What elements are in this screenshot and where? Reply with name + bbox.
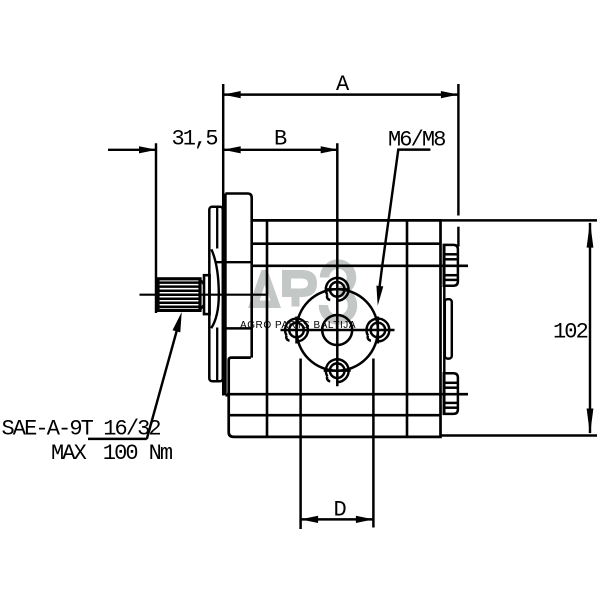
body horizontal line upper2 with plug centerline [252,264,468,267]
dimension 31,5 line with outside arrow [108,146,157,153]
front cover plate [225,194,251,396]
gear housing right wall [406,220,409,437]
cover seal bore bottom [225,327,251,329]
leader M6/M8 [376,150,430,306]
leader SAE [147,312,182,439]
rear strip [445,299,452,358]
shaft collar [204,275,210,314]
body top edge extension for 102 [441,219,598,221]
central vertical line / B extension [336,143,339,386]
dimension extension line A/B/31,5 shared [222,84,224,396]
bolt hole top [326,278,349,301]
flange plate [209,207,223,381]
bolt circle BCD [297,289,378,370]
dimension extension line 31,5 left [155,143,157,313]
D extension line left [299,359,302,530]
svg-text:MAX: MAX [51,441,87,466]
dimension 102 line [587,222,594,435]
svg-text:102: 102 [553,320,588,345]
hub leaf profile [211,249,219,328]
gear housing left wall [266,220,269,437]
bolt crosshair horizontal long [281,329,395,332]
bolt hole right [367,317,390,344]
body bottom edge extension for 102 [441,434,598,436]
bottom port plug [444,373,458,414]
dimension D line [301,516,374,523]
svg-text:D: D [334,498,347,523]
watermark logo APB [248,264,352,320]
svg-text:SAE-A-9T 16/32: SAE-A-9T 16/32 [2,416,161,441]
cover seal bore top [216,261,252,263]
dimension A extension right [457,84,459,216]
dimension A line [223,91,458,98]
rear plate line [443,244,445,415]
bolt hole left [285,317,308,344]
svg-text:B: B [274,127,287,152]
svg-text:100: 100 [103,441,138,466]
center hole [322,315,352,345]
label underline [88,438,147,441]
shaft centerline [140,294,268,296]
top port plug [444,245,458,286]
svg-text:31,5: 31,5 [172,127,218,152]
body horizontal line lower2 [229,414,441,417]
body horizontal line lower with plug centerline [227,393,468,396]
pump body outline [229,220,441,437]
bolt hole bottom [324,359,351,382]
splined shaft [158,279,204,311]
body horizontal line upper [252,242,441,245]
port boss edge stub [457,227,459,247]
svg-text:Nm: Nm [149,441,173,466]
D extension line right [372,359,375,528]
flange pilot step line [216,208,218,249]
dimension B line [223,146,338,153]
